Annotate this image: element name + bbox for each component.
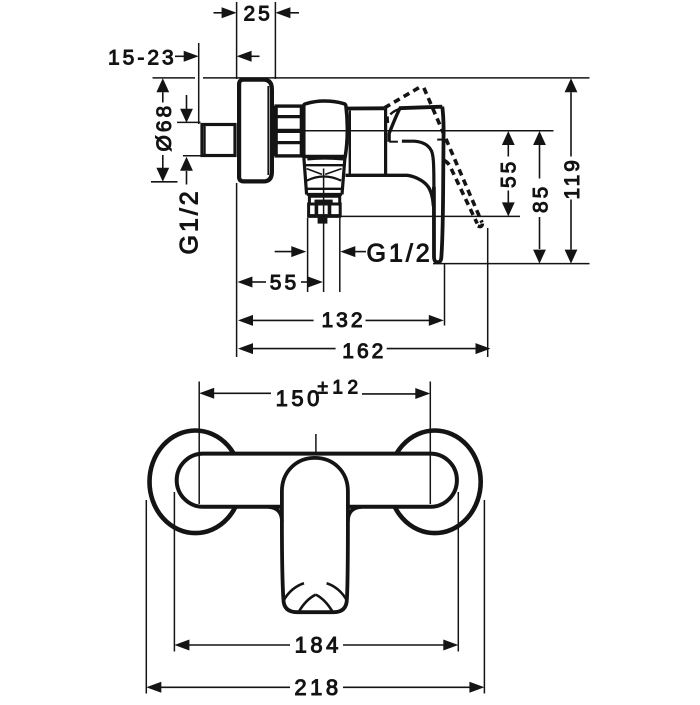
cartridge block [304,101,348,157]
handle (front) [282,458,348,612]
dimension 25 (top) [214,7,300,18]
extension line escutcheon front face lower [236,183,238,357]
spout inner curve [402,141,434,187]
dimension 132 [238,315,444,326]
svg-text:132: 132 [322,309,366,332]
svg-text:55: 55 [270,272,299,295]
dimension 85 (vertical) [533,131,546,264]
dimension G1/2 (bottom row) [275,246,366,257]
dimension G1/2 (left, vertical) [180,95,193,185]
extension line escutcheon front face [236,2,238,79]
extension line escutcheon back face [274,2,276,79]
handle end detail curves [283,583,347,612]
svg-text:119: 119 [561,157,584,199]
svg-text:15-23: 15-23 [108,46,177,69]
extension line outlet centre [323,169,325,293]
extension line body left end [173,492,175,652]
extension line body right end [457,492,459,652]
extension line wall plane [198,43,200,124]
dimension 218 [146,682,484,693]
svg-text:184: 184 [295,633,342,658]
spout body section [346,108,434,206]
dimension 55 (bottom row) [237,277,323,288]
spout inner short line [389,141,398,143]
svg-text:25: 25 [244,3,273,26]
outlet end cap (black) [318,218,328,224]
dimension 55 (right, vertical) [502,131,515,216]
body bar [177,454,457,507]
dimension 150±12 [199,388,430,399]
svg-text:G1/2: G1/2 [176,188,204,254]
svg-text:150: 150 [276,386,323,411]
dimension 162 [238,343,491,354]
cartridge block bottom line [302,155,347,158]
hex nut [275,106,302,156]
nipple bottom extension tick [183,155,202,157]
escutcheon (side) [239,80,272,182]
extension line top (escutcheon top plane, left part) [153,77,196,79]
extension line right escutcheon outer [483,500,485,694]
wall nipple G1/2 [202,125,235,156]
extension line supply axis [276,130,554,132]
dimension 119 (vertical) [565,78,578,263]
neck fillets [268,507,282,522]
outlet thread G1/2 [307,204,341,216]
handle grip (solid, rest position) [434,107,444,263]
extension line top (escutcheon top plane, right part) [203,77,590,79]
svg-text:85: 85 [530,184,553,213]
extension line right union centre [429,382,431,505]
outlet collar [309,195,340,205]
svg-text:±12: ±12 [318,378,363,399]
svg-text:G1/2: G1/2 [367,239,433,267]
dimension 184 [174,640,458,651]
right escutcheon (front) [389,431,481,534]
extension line left escutcheon outer [145,500,147,694]
extension line left union centre [198,382,200,505]
dimension 15-23 [175,51,260,62]
dimension Ø68 (vertical) [151,78,178,182]
svg-text:55: 55 [497,159,520,188]
centre mark front view [315,434,317,452]
extension line handle outer face [444,264,446,326]
svg-text:Ø68: Ø68 [153,103,176,152]
handle base (solid) [389,107,443,142]
extension line outlet right [339,218,341,292]
outlet taper section [304,158,345,195]
svg-text:218: 218 [294,675,341,700]
extension line outlet left [307,218,309,292]
dashed handle raised position [385,86,483,226]
extension line open handle tip [487,228,489,357]
left escutcheon (front) [150,431,242,534]
svg-text:162: 162 [342,340,386,363]
nipple top extension tick [177,121,201,123]
extension line outlet plane [341,215,521,217]
extension line handle bottom plane [433,263,590,265]
